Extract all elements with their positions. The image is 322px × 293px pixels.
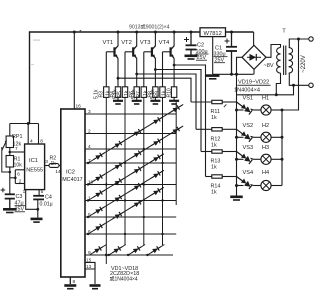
wire 555 supply branch	[10, 124, 39, 145]
node VS4 anode	[235, 184, 238, 187]
label VT3	[140, 40, 151, 46]
wire ground rail	[213, 73, 254, 75]
node C1 junction	[230, 31, 233, 34]
svg-text:NE555: NE555	[26, 168, 43, 174]
wire lamp supply rail	[281, 110, 283, 186]
svg-text:IC1: IC1	[29, 158, 38, 164]
label VT2	[121, 40, 132, 46]
wire VT2 emitter to VS row	[137, 74, 196, 129]
label H4	[262, 170, 269, 176]
speck top left	[30, 40, 40, 66]
label C2	[196, 43, 209, 62]
resistor R13	[212, 150, 222, 153]
wire pins 15 13	[85, 262, 95, 284]
label R12	[211, 136, 221, 148]
label pin7	[15, 146, 18, 152]
node VT3 emitter junction	[154, 68, 157, 71]
thyristor VS1	[237, 102, 254, 114]
wire pin2	[15, 183, 24, 185]
wire bridge plus to rail	[253, 32, 255, 45]
svg-text:5.1k: 5.1k	[150, 89, 156, 99]
label pin8 IC2	[73, 279, 76, 285]
label VS2	[243, 123, 254, 129]
node AC junction on anode feed	[292, 84, 295, 87]
node VS1 anode	[235, 109, 238, 112]
label VD1~VD18	[111, 266, 138, 272]
label pin14	[55, 169, 61, 175]
transistor VT4	[163, 32, 175, 87]
node lamp rail row 3	[281, 158, 284, 161]
label pin8	[40, 139, 43, 145]
node pin1-C4 junction	[36, 208, 39, 211]
node C1 ground junction	[230, 73, 233, 76]
thyristor VS4	[237, 177, 254, 189]
wire gate row 2 left	[196, 128, 212, 130]
wire gate row 4 right	[222, 176, 236, 178]
label H3	[262, 145, 269, 151]
label pin1	[23, 189, 26, 195]
svg-text:5.1k: 5.1k	[112, 89, 118, 99]
label C3	[15, 194, 26, 213]
svg-text:1k: 1k	[211, 190, 217, 196]
label VS1	[243, 96, 254, 102]
node rail junction to ICs	[73, 31, 76, 34]
svg-text:VS3: VS3	[243, 145, 254, 151]
lamp H2	[254, 132, 283, 142]
label R14	[211, 184, 221, 196]
transformer T	[277, 29, 293, 76]
diodes VD1~VD18 matrix chains	[88, 103, 183, 255]
wire primary top to terminal	[289, 39, 309, 48]
svg-text:3: 3	[88, 109, 91, 115]
wire RP1 wiper line	[2, 147, 10, 172]
label pin6	[17, 171, 20, 177]
wire pin16	[73, 32, 75, 109]
node VS3 anode	[235, 158, 238, 161]
label C4	[40, 195, 53, 208]
wire VT3 emitter to VS row	[155, 70, 201, 152]
label R1	[14, 157, 23, 169]
label transistor types	[129, 23, 170, 31]
label pin16	[76, 104, 82, 110]
label VS4	[243, 170, 254, 176]
svg-text:5.1k: 5.1k	[131, 89, 137, 99]
wire secondary bottom	[276, 73, 280, 95]
node lamp rail row 1	[281, 109, 284, 112]
label R2	[50, 156, 57, 167]
lamp H1	[254, 105, 283, 115]
node lamp rail row 2	[281, 136, 284, 139]
label R9	[150, 89, 161, 99]
thyristor VS2	[237, 129, 254, 141]
ic IC1 NE555	[25, 144, 45, 190]
svg-text:VT1: VT1	[103, 40, 114, 46]
label R4	[105, 90, 116, 97]
svg-text:RP1: RP1	[12, 134, 23, 140]
label pin5	[41, 189, 44, 195]
label ~8V	[264, 63, 274, 69]
svg-text:2: 2	[88, 128, 91, 134]
ground anode rail	[230, 197, 243, 200]
wire gate row 2 right	[222, 128, 236, 130]
ground IC2 pin8	[64, 286, 76, 289]
resistor R9	[160, 87, 165, 98]
lamp H4	[254, 180, 283, 190]
svg-text:VT2: VT2	[121, 40, 132, 46]
svg-text:VD19~VD22: VD19~VD22	[238, 79, 269, 85]
svg-text:1k: 1k	[143, 90, 149, 96]
ground C2	[185, 56, 198, 59]
svg-text:VT3: VT3	[140, 40, 151, 46]
label pin13	[86, 264, 91, 269]
svg-text:C2: C2	[197, 43, 204, 49]
svg-text:H3: H3	[262, 145, 269, 151]
resistor R11	[212, 100, 222, 103]
node VT1 emitter junction	[117, 77, 120, 80]
svg-text:1k: 1k	[162, 90, 168, 96]
resistor R4	[115, 87, 120, 101]
wire bridge AC corner to anode rail	[237, 57, 243, 195]
label VD19~VD22	[238, 79, 271, 85]
capacitor C3	[1, 188, 15, 208]
ground C3	[3, 209, 16, 212]
resistor R12	[212, 128, 222, 131]
node VT2 emitter junction	[135, 73, 138, 76]
svg-text:VS1: VS1	[243, 96, 254, 102]
wire pin1	[26, 190, 38, 210]
ground W7812	[206, 76, 220, 79]
label IC2 output pins	[88, 109, 94, 256]
node VS2 anode	[235, 136, 238, 139]
svg-text:1k: 1k	[51, 161, 57, 167]
node VT4 collector junction	[173, 31, 176, 34]
label ~220V	[301, 55, 307, 73]
svg-text:H1: H1	[262, 96, 269, 102]
ground R4	[113, 101, 123, 104]
resistor R1	[6, 152, 13, 194]
wire W7812 ground pin	[212, 37, 214, 75]
capacitor C2	[184, 32, 197, 55]
svg-text:16: 16	[76, 104, 82, 110]
node R1-C3 junction	[9, 171, 12, 174]
svg-text:1k: 1k	[105, 90, 111, 96]
svg-text:1k: 1k	[124, 90, 130, 96]
label IC1	[26, 158, 43, 174]
label H1	[262, 96, 269, 102]
svg-text:VS2: VS2	[243, 123, 254, 129]
ic IC2 MC4017	[61, 109, 85, 277]
bridge rectifier VD19~VD22	[242, 45, 266, 69]
wire 220V top to lamp rail	[282, 39, 299, 110]
svg-text:1: 1	[23, 189, 26, 195]
resistor R5	[122, 87, 127, 98]
resistor R7	[141, 87, 146, 98]
label H2	[262, 123, 269, 129]
wire pin5	[38, 190, 40, 196]
ground R8	[150, 101, 160, 104]
svg-text:1k: 1k	[211, 165, 217, 171]
svg-text:2: 2	[19, 178, 22, 184]
label or 1N4004	[110, 275, 138, 282]
svg-text:4: 4	[88, 144, 91, 150]
svg-text:C3: C3	[16, 194, 23, 200]
potentiometer RP1	[2, 124, 14, 153]
label VT1	[103, 40, 114, 46]
label R13	[211, 159, 221, 171]
label R3	[94, 89, 105, 99]
node RP1-R1 junction	[9, 151, 12, 154]
svg-text:IC2: IC2	[66, 170, 75, 176]
transistor VT1	[106, 32, 118, 87]
ground C4	[31, 219, 43, 222]
svg-text:VS4: VS4	[243, 170, 254, 176]
terminal 220V bottom	[309, 83, 313, 87]
resistor R10	[171, 87, 176, 101]
svg-text:6: 6	[17, 171, 20, 177]
node 220V top junction	[297, 38, 300, 41]
wire gate row 3 right	[222, 151, 236, 153]
wire left vertical rail	[29, 31, 31, 123]
wire pin6-2 branch	[10, 177, 16, 179]
wire primary bottom to terminal	[289, 73, 309, 85]
svg-text:T: T	[282, 29, 286, 35]
label R8	[143, 90, 154, 97]
label pin15	[86, 257, 91, 262]
node secondary-AC junction	[275, 93, 278, 96]
svg-text:15: 15	[86, 257, 91, 262]
lamp H3	[254, 154, 283, 164]
resistor R6	[134, 87, 139, 101]
label R11	[211, 109, 221, 121]
svg-text:W7812: W7812	[204, 31, 222, 37]
resistor R2	[45, 164, 61, 168]
svg-text:1k: 1k	[211, 142, 217, 148]
svg-text:~220V: ~220V	[301, 55, 307, 73]
label R7	[131, 89, 142, 99]
label RP1	[12, 134, 23, 148]
svg-text:13: 13	[86, 264, 91, 269]
label 2CZ82D	[110, 271, 139, 277]
svg-text:10k: 10k	[14, 163, 23, 169]
wire gate row 3 left	[201, 151, 212, 153]
wire bridge minus to ground rail	[253, 69, 255, 74]
ground IC2 pin13 15	[90, 286, 101, 289]
capacitor C1	[225, 32, 238, 74]
wire bridge AC to secondary top	[266, 45, 281, 58]
wire gate row 1 left	[191, 101, 212, 103]
capacitor C4	[33, 196, 44, 218]
regulator W7812	[200, 28, 226, 37]
node VT1 collector junction	[117, 31, 120, 34]
resistor R3	[104, 87, 109, 98]
wire diode matrix grid	[85, 97, 176, 255]
wire VT1 emitter to VS row	[118, 78, 191, 102]
label R6	[124, 90, 135, 97]
svg-text:5.1k: 5.1k	[94, 89, 100, 99]
terminal 220V top	[309, 37, 313, 41]
svg-text:3: 3	[45, 159, 48, 165]
svg-text:1N4004×4: 1N4004×4	[234, 88, 260, 94]
svg-text:或1N4004×4: 或1N4004×4	[110, 275, 138, 282]
svg-text:1k: 1k	[211, 115, 217, 121]
node C2 junction	[190, 31, 193, 34]
svg-text:9013或9001(2)×4: 9013或9001(2)×4	[129, 23, 170, 31]
label VS3	[243, 145, 254, 151]
label VT4	[159, 40, 170, 46]
label 1N4004x4	[234, 88, 260, 94]
svg-text:~8V: ~8V	[264, 63, 274, 69]
speck near rail	[80, 30, 82, 32]
wire +12V top rail	[30, 31, 254, 33]
thyristor VS3	[237, 152, 254, 164]
label pin4	[30, 139, 33, 145]
wire gate row 1 right	[222, 101, 236, 103]
svg-text:0.01μ: 0.01μ	[40, 201, 53, 207]
svg-text:H2: H2	[262, 123, 269, 129]
wire pin8 IC2	[69, 277, 71, 284]
svg-text:MC4017: MC4017	[62, 177, 82, 183]
label pin3	[45, 159, 48, 165]
resistor R8	[153, 87, 158, 101]
wire pin7	[10, 151, 25, 153]
wire pin6	[15, 170, 24, 184]
node VT2 collector junction	[135, 31, 138, 34]
label R5	[112, 89, 123, 99]
svg-text:5: 5	[41, 189, 44, 195]
label pin2	[19, 178, 22, 184]
resistor R14	[212, 175, 222, 178]
svg-text:8: 8	[73, 279, 76, 285]
label C1	[214, 46, 228, 64]
transistor VT3	[144, 32, 156, 87]
speck near R11	[224, 104, 227, 107]
wire matrix column tail	[105, 255, 107, 264]
wire AC feed horizontal	[237, 85, 294, 95]
node 555 supply junction	[27, 122, 30, 125]
node pin6-2 branch junction	[14, 177, 17, 180]
label IC2	[62, 170, 82, 183]
svg-text:VT4: VT4	[159, 40, 170, 46]
svg-text:7: 7	[15, 146, 18, 152]
svg-text:C4: C4	[45, 195, 52, 201]
ground R10	[169, 101, 179, 104]
label R10	[162, 88, 173, 97]
wire VT4 emitter to VS row	[174, 65, 205, 177]
node matrix junctions	[87, 148, 164, 257]
node bridge minus junction	[235, 73, 238, 76]
svg-text:H4: H4	[262, 170, 269, 176]
ground R6	[132, 101, 142, 104]
node VT4 emitter junction	[173, 64, 176, 67]
transistor VT2	[125, 32, 137, 87]
wire gate row 4 left	[206, 176, 212, 178]
node VT3 collector junction	[154, 31, 157, 34]
